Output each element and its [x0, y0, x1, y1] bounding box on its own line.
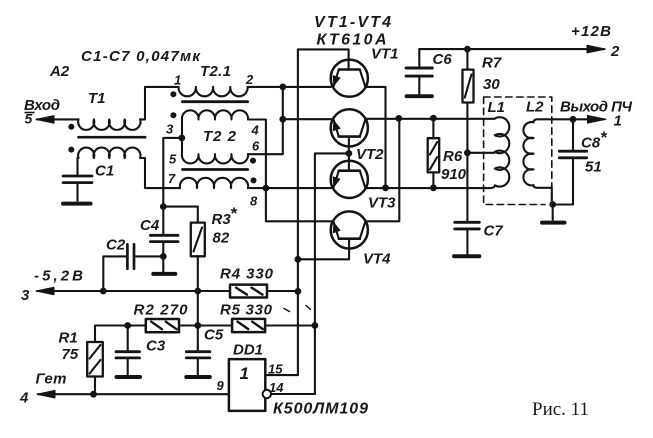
- svg-text:С2: С2: [106, 237, 126, 254]
- wire pin4 drop to pin8 net and VT4 emitter: [248, 120, 333, 222]
- svg-text:14: 14: [269, 380, 284, 395]
- svg-text:С1: С1: [95, 163, 114, 180]
- svg-text:1: 1: [240, 364, 249, 383]
- transformer T2.1 winding pins 1-2: [179, 87, 248, 96]
- svg-text:С4: С4: [140, 217, 160, 234]
- svg-text:75: 75: [62, 346, 79, 363]
- svg-text:VT1: VT1: [371, 46, 399, 63]
- wire Гет port 4 arrow to DD1 pin 9: [37, 390, 229, 398]
- wire VT2 collector to L1 top: [365, 118, 494, 120]
- svg-text:L1: L1: [488, 99, 506, 116]
- wire pin2 to VT1 emitter: [248, 86, 331, 88]
- node junction pin8 wire: [263, 185, 270, 192]
- inductor L2: [523, 119, 556, 204]
- resistor R3: [163, 207, 205, 291]
- node junction emitter wire VT2: [279, 116, 286, 123]
- svg-text:Гет: Гет: [36, 371, 67, 388]
- svg-text:С1-С7 0,047мк: С1-С7 0,047мк: [81, 48, 201, 65]
- capacitor C7: [455, 222, 480, 254]
- svg-text:7: 7: [168, 171, 176, 186]
- wire VT4 collector riser: [365, 118, 399, 221]
- svg-text:R3: R3: [212, 211, 232, 228]
- svg-text:VT3: VT3: [368, 195, 396, 212]
- wire R2 R5 rail: [95, 326, 315, 343]
- wire pin8 to VT3 emitter: [248, 187, 331, 189]
- ground below C5: [186, 375, 210, 379]
- phase dot T2 pin6: [250, 158, 256, 164]
- svg-text:15: 15: [268, 362, 283, 377]
- transformer T2 core upper: [183, 100, 248, 103]
- resistor R1: [87, 342, 103, 394]
- node junction VT4 base: [295, 256, 302, 263]
- svg-text:К500ЛМ109: К500ЛМ109: [273, 401, 368, 418]
- svg-text:3: 3: [21, 287, 30, 304]
- svg-text:L2: L2: [526, 99, 544, 116]
- svg-text:1: 1: [174, 73, 181, 88]
- resistor R6: [428, 118, 440, 188]
- svg-text:Т1: Т1: [88, 90, 106, 107]
- svg-text:82: 82: [213, 230, 230, 247]
- svg-text:R6: R6: [443, 148, 463, 165]
- transformer T1 core: [79, 136, 146, 139]
- svg-text:Т2.1: Т2.1: [200, 63, 231, 80]
- transformer T2.2 winding pins 7-8: [180, 178, 248, 188]
- node junction C4 top: [160, 203, 167, 210]
- svg-text:А2: А2: [49, 63, 70, 80]
- node junction C2 on -5.2V: [100, 288, 107, 295]
- svg-text:8: 8: [250, 194, 258, 209]
- capacitor C1: [63, 158, 92, 201]
- stray tick marks: [284, 306, 311, 312]
- node junction VT1-VT3 collectors: [382, 184, 389, 191]
- phase dot T1 secondary: [68, 147, 74, 153]
- capacitor C3: [116, 326, 140, 376]
- phase dot T1 primary: [68, 124, 74, 130]
- transformer T2.2 winding pins 3-4: [182, 110, 248, 119]
- node junction VT2 VT3 bases: [346, 150, 353, 157]
- capacitor C5: [186, 291, 210, 375]
- svg-text:Т2 2: Т2 2: [203, 128, 237, 145]
- transistor VT2: [331, 109, 368, 153]
- ground below L2 C8: [542, 205, 565, 223]
- svg-text:9: 9: [217, 378, 225, 393]
- transformer T1 primary winding: [78, 119, 140, 129]
- node junction R1 bottom: [90, 391, 97, 398]
- ground below C7: [454, 254, 479, 258]
- wire pin6 to emitter riser: [248, 87, 283, 154]
- node junction C8 top: [570, 116, 577, 123]
- svg-text:С3: С3: [146, 338, 166, 355]
- node junction C3 top: [124, 322, 131, 329]
- svg-text:DD1: DD1: [233, 342, 263, 359]
- svg-text:R1: R1: [59, 330, 78, 347]
- svg-text:910: 910: [441, 166, 467, 183]
- node junction pin2 wire: [279, 84, 286, 91]
- wire VT1 base from bias rail: [298, 49, 349, 375]
- node junction R4 right: [295, 288, 302, 295]
- resistor R5: [232, 319, 265, 332]
- svg-text:VT4: VT4: [363, 251, 391, 268]
- svg-text:6: 6: [252, 139, 260, 154]
- capacitor C6: [406, 49, 432, 94]
- transistor VT3: [331, 153, 368, 198]
- inductor L1: [490, 117, 509, 188]
- svg-text:С5: С5: [204, 327, 224, 344]
- node junction R6 bottom: [430, 184, 437, 191]
- svg-text:2: 2: [610, 43, 620, 60]
- wire Выход ПЧ port 1 arrow: [556, 116, 606, 124]
- svg-text:VT2: VT2: [356, 146, 384, 163]
- wire R7 bottom to L1 tap and C7: [467, 103, 494, 222]
- capacitor C8: [553, 119, 587, 204]
- phase dot T2 pin3: [170, 112, 176, 118]
- node junction R3 on -5.2V: [194, 288, 201, 295]
- node junction VT2-VT4 collectors: [395, 115, 402, 122]
- svg-text:R5 330: R5 330: [220, 302, 273, 319]
- capacitor C4: [150, 207, 178, 257]
- wire VT2 VT3 base rail: [315, 153, 349, 394]
- svg-text:51: 51: [585, 159, 602, 176]
- ground below C1: [63, 202, 91, 206]
- svg-text:R7: R7: [482, 55, 502, 72]
- transistor VT1: [331, 60, 368, 97]
- svg-text:С7: С7: [484, 223, 504, 240]
- DD1 pin 14 bubble: [263, 390, 271, 398]
- svg-text:С6: С6: [433, 51, 453, 68]
- svg-text:Рис. 11: Рис. 11: [532, 399, 589, 420]
- transformer T2 core lower: [183, 168, 248, 171]
- svg-text:3: 3: [166, 122, 174, 137]
- phase dot T2 pin1: [170, 91, 176, 97]
- node junction R5 right: [312, 322, 319, 329]
- node junction C5 top rail: [194, 322, 201, 329]
- wire T1 primary right to pin1 riser: [140, 87, 179, 120]
- resistor R4: [230, 285, 298, 298]
- wire VT2 emitter: [283, 118, 333, 120]
- svg-text:4: 4: [19, 390, 29, 407]
- dashed screen box L1 L2: [484, 97, 552, 205]
- svg-text:4: 4: [251, 123, 260, 138]
- DD1 pin 14 wire: [271, 393, 315, 395]
- node junction L2 C8 ground: [549, 201, 556, 208]
- IC DD1: [229, 359, 265, 411]
- node junction tap pins 3-5: [178, 135, 185, 142]
- svg-text:5: 5: [169, 152, 177, 167]
- svg-text:R2 270: R2 270: [134, 302, 189, 319]
- resistor R7: [463, 49, 474, 102]
- svg-text:2: 2: [245, 72, 254, 87]
- wire T1 secondary right to pin7: [140, 158, 180, 188]
- ground below C6: [407, 94, 433, 98]
- capacitor C2: [103, 244, 163, 291]
- svg-text:30: 30: [483, 76, 500, 93]
- wire pin3 tap: [163, 120, 182, 207]
- node junction R7 top on rail: [464, 46, 471, 53]
- wire +12V rail and port 2 arrow: [419, 45, 605, 53]
- node junction L1 tap: [464, 149, 471, 156]
- svg-text:5: 5: [25, 111, 33, 127]
- DD1 pin 15 wire: [265, 374, 298, 376]
- node junction C4 bottom C2: [160, 253, 167, 260]
- ground below C3: [117, 375, 141, 379]
- ground below C4: [153, 256, 175, 274]
- svg-text:1: 1: [614, 113, 622, 130]
- svg-text:+12В: +12В: [571, 23, 611, 40]
- svg-text:R4 330: R4 330: [220, 266, 274, 283]
- wire -5.2V rail port 3 arrow: [36, 287, 230, 295]
- node Вход port 5 arrow: [36, 116, 79, 124]
- svg-text:С8: С8: [581, 135, 601, 152]
- transistor VT4: [298, 211, 368, 259]
- wire VT1 collector down to VT3 collector: [365, 87, 385, 188]
- wire VT3 collector to L1 bottom: [365, 187, 490, 189]
- resistor R2: [146, 319, 179, 332]
- transformer T1 secondary winding: [78, 148, 140, 158]
- transformer T2.2 winding pins 5-6: [182, 138, 248, 164]
- phase dot T2 pin8: [251, 177, 257, 183]
- node junction R6 top: [430, 115, 437, 122]
